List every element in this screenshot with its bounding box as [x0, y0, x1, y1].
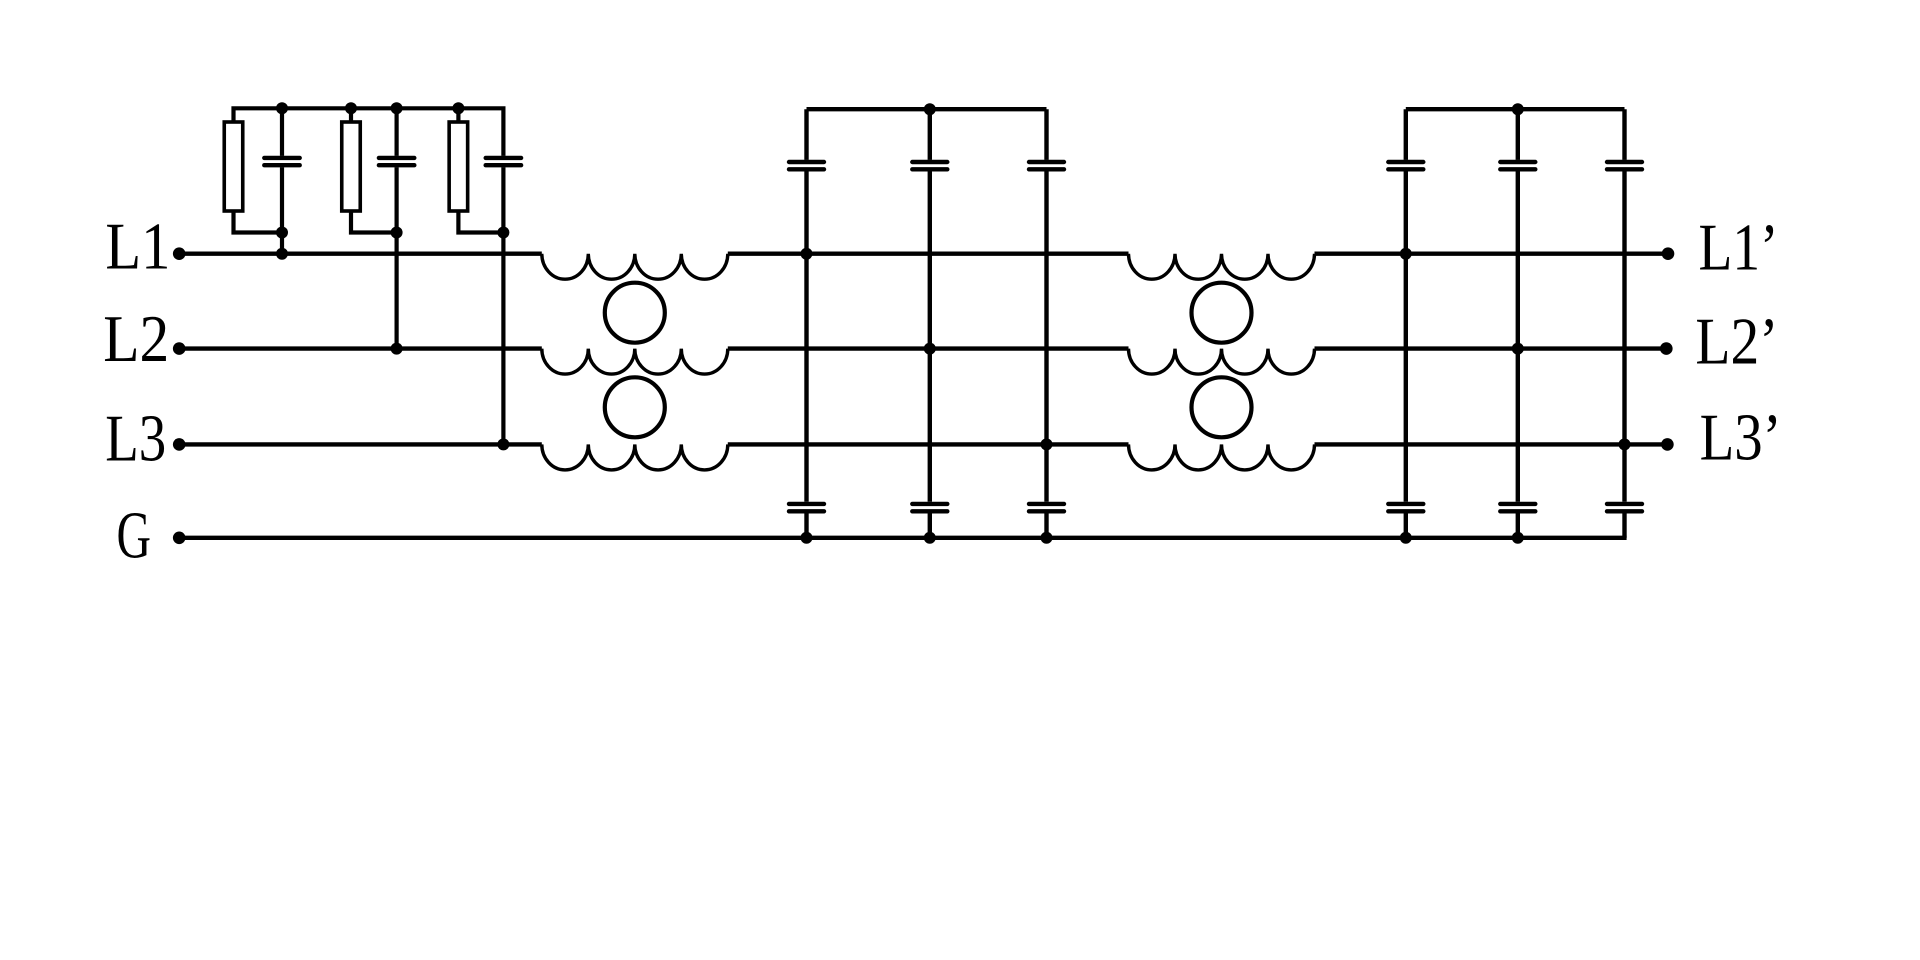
choke2 core circle top	[1192, 283, 1252, 343]
capacitor X-cap bank1.3 plates	[1029, 160, 1064, 164]
svg-text:L3’: L3’	[1700, 401, 1782, 475]
wire RC top bus	[234, 108, 504, 156]
choke1 core circle bottom	[605, 377, 665, 437]
junction dot RC bottom branch 1	[276, 227, 288, 239]
wire bank2.1 ground lead	[1404, 513, 1408, 537]
capacitor C1 plates	[264, 156, 299, 160]
wire L2 segment middle	[728, 346, 1129, 350]
svg-text:L2’: L2’	[1695, 305, 1778, 379]
svg-text:L1: L1	[105, 210, 170, 284]
wire bank2 top bus	[1406, 107, 1625, 111]
node G terminal dot	[173, 532, 186, 545]
wire L1 segment left	[179, 251, 542, 255]
resistor R2	[342, 122, 361, 211]
wire bank1.3 ground lead	[1044, 513, 1048, 537]
choke2 core circle bottom	[1192, 377, 1252, 437]
svg-text:G: G	[117, 498, 152, 572]
inductor choke2 winding L2	[1129, 349, 1315, 375]
inductor choke1 winding L1	[542, 254, 728, 279]
junction dot C1 on L1	[276, 248, 288, 260]
junction dot RC bus / branch 1 cap	[276, 102, 288, 114]
capacitor X-cap bank2.1 plates	[1388, 160, 1423, 164]
wire bank1.1 ground lead	[804, 513, 808, 537]
junction dot bank2.2 on L2	[1512, 343, 1524, 355]
wire L3 segment left	[179, 442, 542, 446]
capacitor X-cap bank1.1 plates	[789, 160, 824, 164]
capacitor C2 plates	[379, 156, 414, 160]
capacitor Y-cap bank2.3 plates	[1607, 502, 1642, 506]
wire bank1.2 bus lead	[928, 109, 932, 160]
wire C1 top lead	[280, 108, 284, 156]
wire bank2.3 bus lead	[1622, 109, 1626, 160]
capacitor X-cap bank2.2 plates	[1500, 160, 1535, 164]
junction dot bank2.2 on G	[1512, 532, 1524, 544]
node L2 terminal dot	[173, 342, 186, 355]
wire L3 segment middle	[728, 442, 1129, 446]
inductor choke2 winding L1	[1129, 254, 1315, 279]
wire bank1 top bus	[807, 107, 1047, 111]
junction dot bank2.1 on L1	[1400, 248, 1412, 260]
capacitor X-cap bank1.2 plates	[912, 160, 947, 164]
inductor choke1 winding L2	[542, 349, 728, 375]
wire bank1.1 vertical	[804, 171, 808, 501]
junction dot RC bottom branch 2	[391, 227, 403, 239]
svg-text:L2: L2	[103, 302, 169, 376]
junction dot bank1.1 on L1	[801, 248, 813, 260]
wire L1 segment right	[1315, 251, 1669, 255]
junction dot bank1.2 on L2	[924, 343, 936, 355]
capacitor C3 plates	[486, 156, 521, 160]
capacitor Y-cap bank1.3 plates	[1029, 502, 1064, 506]
junction dot RC bus / R3	[452, 102, 464, 114]
capacitor Y-cap bank2.2 plates	[1500, 502, 1535, 506]
capacitor Y-cap bank2.1 plates	[1388, 502, 1423, 506]
wire bank2.1 vertical	[1404, 171, 1408, 501]
node L3 terminal dot	[173, 438, 186, 451]
wire bank2.2 bus lead	[1516, 109, 1520, 160]
wire bank2.2 ground lead	[1516, 513, 1520, 537]
wire C3 bottom lead to line	[501, 167, 505, 444]
resistor R1	[224, 122, 243, 211]
junction dot bank1.1 on G	[801, 532, 813, 544]
node L3' terminal dot	[1661, 438, 1674, 451]
junction dot bank2.3 on L3	[1619, 438, 1631, 450]
wire C2 bottom lead to line	[395, 167, 399, 348]
junction dot bank1 bus	[924, 103, 936, 115]
node L1 terminal dot	[173, 247, 186, 260]
wire bank2.3 vertical	[1622, 171, 1626, 501]
wire bank2.1 bus lead	[1404, 109, 1408, 160]
wire bank1.3 bus lead	[1044, 109, 1048, 160]
wire L3 segment right	[1315, 442, 1669, 446]
junction dot bank2.1 on G	[1400, 532, 1412, 544]
wire bank1.3 vertical	[1044, 171, 1048, 501]
wire L2 segment right	[1315, 346, 1669, 350]
wire C2 top lead	[395, 108, 399, 156]
wire R3 bottom lead	[458, 210, 503, 233]
inductor choke1 winding L3	[542, 444, 728, 470]
capacitor X-cap bank2.3 plates	[1607, 160, 1642, 164]
junction dot RC bottom branch 3	[497, 227, 509, 239]
junction dot RC bus / R2	[345, 102, 357, 114]
choke1 core circle top	[605, 283, 665, 343]
wire bank1.2 ground lead	[928, 513, 932, 537]
junction dot RC bus / branch 2 cap	[391, 102, 403, 114]
junction dot bank2 bus	[1512, 103, 1524, 115]
wire R3 top lead	[456, 108, 460, 123]
wire bank2.3 ground lead	[1622, 513, 1626, 537]
svg-text:L1’: L1’	[1699, 211, 1779, 285]
junction dot C3 on L3	[497, 438, 509, 450]
node L1' terminal dot	[1662, 247, 1675, 260]
wire bank1.2 vertical	[928, 171, 932, 501]
junction dot C2 on L2	[391, 343, 403, 355]
wire L2 segment left	[179, 346, 542, 350]
node L2' terminal dot	[1660, 342, 1673, 355]
capacitor Y-cap bank1.1 plates	[789, 502, 824, 506]
wire L1 segment middle	[728, 251, 1129, 255]
wire R2 top lead	[349, 108, 353, 123]
junction dot bank1.3 on L3	[1041, 438, 1053, 450]
wire bank2.2 vertical	[1516, 171, 1520, 501]
wire bank1.1 bus lead	[804, 109, 808, 160]
wire R1 bottom lead	[234, 210, 283, 233]
inductor choke2 winding L3	[1129, 444, 1315, 470]
junction dot bank1.2 on G	[924, 532, 936, 544]
wire C1 bottom lead to line	[280, 167, 284, 254]
wire G line	[179, 536, 1626, 540]
junction dot bank1.3 on G	[1041, 532, 1053, 544]
resistor R3	[449, 122, 468, 211]
capacitor Y-cap bank1.2 plates	[912, 502, 947, 506]
wire R2 bottom lead	[351, 210, 397, 233]
svg-text:L3: L3	[105, 402, 166, 476]
